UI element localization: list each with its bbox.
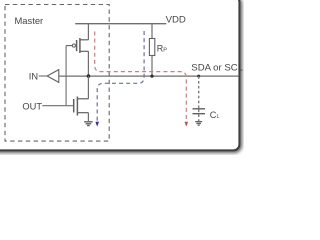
svg-text:IN: IN xyxy=(29,71,38,81)
capacitor CL xyxy=(193,108,206,110)
wire red current path (charge) xyxy=(95,32,187,122)
wire OUT to NMOS gate xyxy=(42,105,73,107)
ground (CL) xyxy=(195,122,202,126)
figure frame border xyxy=(0,0,239,150)
blue arrowhead xyxy=(95,122,99,127)
red arrowhead xyxy=(185,122,189,127)
op-amp buffer U1 xyxy=(47,70,59,83)
wire buffer to node / SDA bus xyxy=(59,75,239,77)
svg-text:OUT: OUT xyxy=(22,101,42,111)
transistor Q2 (NMOS) xyxy=(74,97,89,116)
wire (dashed) SDA to CL xyxy=(198,76,200,108)
svg-text:VDD: VDD xyxy=(166,15,186,26)
wire node to NMOS drain xyxy=(87,76,89,99)
svg-text:Master: Master xyxy=(15,15,44,26)
wire PMOS source to rail xyxy=(87,24,89,40)
ground (master) xyxy=(84,122,93,126)
resistor RP pull-up xyxy=(151,24,153,39)
wire (dashed) CL to ground xyxy=(198,110,200,122)
VDD rail xyxy=(75,23,166,25)
wire IN to buffer xyxy=(39,75,48,77)
wire PMOS drain to node xyxy=(87,51,89,76)
Master dashed box xyxy=(5,5,109,142)
wire gate vertical xyxy=(65,46,67,106)
node CL junction xyxy=(197,75,200,78)
wire NMOS source to ground xyxy=(87,113,89,121)
node A (output node dot) xyxy=(87,74,91,78)
transistor Q1 (PMOS) xyxy=(66,38,88,53)
svg-text:SDA or SCL: SDA or SCL xyxy=(191,63,243,74)
wire blue current path (discharge) xyxy=(97,31,144,122)
node Rp-SDA junction xyxy=(150,75,153,78)
